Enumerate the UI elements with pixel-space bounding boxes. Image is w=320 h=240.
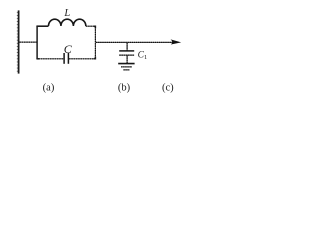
wire feed from wall to resonator xyxy=(19,41,36,43)
capacitor C xyxy=(64,53,68,64)
wire right vertical of LC box xyxy=(94,27,96,58)
wire stub to C1 xyxy=(126,43,128,51)
svg-text:(b): (b) xyxy=(118,82,131,93)
node top-right corner xyxy=(94,26,96,28)
svg-text:C: C xyxy=(64,42,73,56)
capacitor C1 xyxy=(119,51,134,55)
wire left vertical of LC box xyxy=(36,26,38,59)
svg-text:(a): (a) xyxy=(43,82,55,93)
svg-text:(c): (c) xyxy=(162,82,174,93)
wire bottom rail right xyxy=(69,58,94,60)
wire top rail left xyxy=(36,25,48,27)
wire output line xyxy=(96,41,175,43)
inductor L xyxy=(49,19,86,26)
hatched wall conductor xyxy=(17,10,19,73)
svg-text:L: L xyxy=(63,8,70,19)
svg-text:C1: C1 xyxy=(138,51,148,61)
arrowhead output (c) xyxy=(171,39,182,44)
wire bottom rail left xyxy=(39,58,64,60)
wire stub C1 to ground xyxy=(126,55,128,63)
node bottom-right corner xyxy=(94,57,96,59)
node bottom-left corner xyxy=(36,58,39,60)
ground xyxy=(118,64,134,70)
wire top rail right xyxy=(86,25,95,27)
